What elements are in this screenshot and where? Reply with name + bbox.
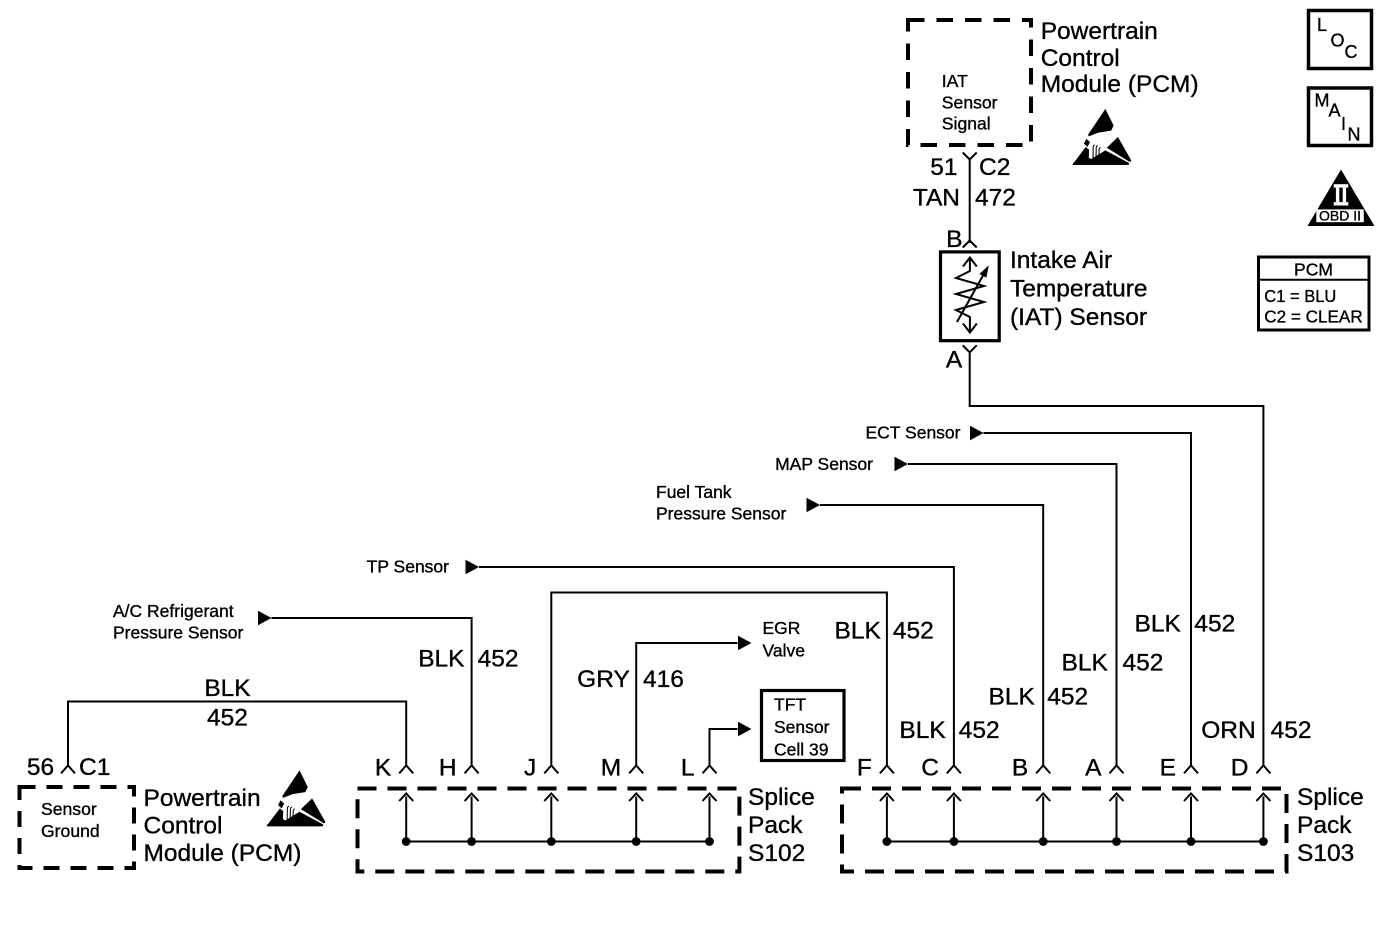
svg-text:452: 452	[1271, 717, 1312, 744]
svg-text:Module (PCM): Module (PCM)	[1041, 71, 1199, 98]
svg-text:TAN: TAN	[913, 185, 960, 212]
svg-text:Fuel Tank: Fuel Tank	[656, 482, 732, 502]
svg-text:452: 452	[1047, 684, 1088, 711]
svg-text:Pressure Sensor: Pressure Sensor	[656, 504, 787, 524]
svg-text:M: M	[1315, 90, 1330, 110]
svg-text:I: I	[1341, 114, 1346, 134]
svg-text:Splice: Splice	[748, 784, 815, 811]
svg-text:O: O	[1331, 30, 1345, 50]
svg-text:J: J	[524, 755, 536, 782]
svg-text:BLK: BLK	[1061, 650, 1108, 677]
svg-text:Temperature: Temperature	[1010, 276, 1148, 303]
svg-text:F: F	[857, 755, 872, 782]
svg-text:Splice: Splice	[1297, 784, 1364, 811]
svg-text:BLK: BLK	[418, 646, 465, 673]
svg-text:IAT: IAT	[942, 71, 968, 91]
svg-text:BLK: BLK	[834, 618, 881, 645]
svg-text:MAP Sensor: MAP Sensor	[775, 454, 873, 474]
svg-text:Sensor: Sensor	[942, 92, 998, 112]
svg-text:K: K	[375, 755, 392, 782]
svg-text:C: C	[1345, 42, 1358, 62]
svg-text:Pressure Sensor: Pressure Sensor	[113, 623, 244, 643]
svg-text:EGR: EGR	[763, 618, 801, 638]
svg-text:452: 452	[478, 646, 519, 673]
svg-text:N: N	[1348, 125, 1361, 145]
svg-text:OBD II: OBD II	[1319, 208, 1361, 224]
svg-text:C: C	[921, 755, 939, 782]
svg-text:Valve: Valve	[763, 641, 805, 661]
svg-text:ECT Sensor: ECT Sensor	[866, 423, 961, 443]
svg-text:Cell 39: Cell 39	[774, 740, 828, 760]
svg-text:Signal: Signal	[942, 114, 991, 134]
svg-text:BLK: BLK	[1134, 611, 1181, 638]
svg-text:Control: Control	[144, 813, 223, 840]
svg-text:BLK: BLK	[988, 684, 1035, 711]
svg-text:Pack: Pack	[748, 812, 803, 839]
svg-text:S102: S102	[748, 840, 805, 867]
svg-text:S103: S103	[1297, 840, 1354, 867]
svg-text:Sensor: Sensor	[41, 799, 97, 819]
svg-text:56: 56	[27, 754, 54, 781]
svg-text:Pack: Pack	[1297, 812, 1352, 839]
svg-text:51: 51	[930, 154, 957, 181]
svg-text:BLK: BLK	[899, 717, 946, 744]
svg-text:C2 = CLEAR: C2 = CLEAR	[1264, 307, 1362, 327]
svg-text:452: 452	[207, 705, 248, 732]
svg-text:TP Sensor: TP Sensor	[367, 557, 450, 577]
svg-text:M: M	[601, 755, 621, 782]
svg-text:Powertrain: Powertrain	[1041, 18, 1158, 45]
svg-text:C1: C1	[79, 754, 110, 781]
svg-text:B: B	[1012, 755, 1028, 782]
svg-text:GRY: GRY	[577, 666, 630, 693]
svg-text:452: 452	[893, 618, 934, 645]
svg-text:C2: C2	[979, 154, 1010, 181]
svg-text:Ground: Ground	[41, 821, 100, 841]
svg-text:452: 452	[1194, 611, 1235, 638]
svg-text:(IAT) Sensor: (IAT) Sensor	[1010, 304, 1147, 331]
svg-text:L: L	[681, 755, 695, 782]
svg-text:Module (PCM): Module (PCM)	[144, 840, 302, 867]
svg-text:Powertrain: Powertrain	[144, 785, 261, 812]
svg-text:E: E	[1160, 755, 1176, 782]
svg-text:TFT: TFT	[774, 695, 806, 715]
svg-text:ORN: ORN	[1201, 717, 1255, 744]
svg-text:H: H	[439, 755, 457, 782]
svg-text:PCM: PCM	[1294, 260, 1333, 280]
svg-text:472: 472	[975, 185, 1016, 212]
svg-text:D: D	[1231, 755, 1249, 782]
svg-text:Sensor: Sensor	[774, 717, 830, 737]
svg-text:416: 416	[643, 666, 684, 693]
svg-text:A: A	[1085, 755, 1102, 782]
svg-text:A/C Refrigerant: A/C Refrigerant	[113, 601, 234, 621]
svg-text:Control: Control	[1041, 45, 1120, 72]
svg-text:L: L	[1317, 15, 1327, 35]
svg-text:Intake Air: Intake Air	[1010, 247, 1112, 274]
svg-text:BLK: BLK	[204, 675, 251, 702]
svg-text:452: 452	[959, 717, 1000, 744]
svg-text:B: B	[946, 226, 962, 253]
svg-text:A: A	[946, 346, 963, 373]
svg-text:452: 452	[1123, 650, 1164, 677]
svg-text:C1 = BLU: C1 = BLU	[1264, 286, 1336, 306]
svg-text:A: A	[1329, 101, 1341, 121]
